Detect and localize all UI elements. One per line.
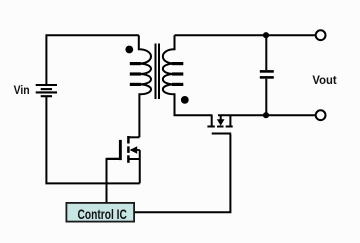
battery B1	[36, 85, 57, 96]
primary winding stubs	[130, 64, 141, 85]
wire: Q1 gate to Control IC	[107, 159, 120, 202]
MOSFET Q1 gate lead	[107, 158, 120, 160]
MOSFET Q1 body arrow	[131, 149, 140, 151]
MOSFET Q2 channel segments	[207, 126, 232, 128]
wire: secondary top to output	[175, 34, 316, 36]
wire: battery bottom, bottom rail to Q1 source corner	[46, 97, 139, 184]
svg-text:Vin: Vin	[14, 85, 30, 98]
secondary winding stubs	[172, 64, 183, 85]
MOSFET Q2 left (drain) vertical	[211, 115, 213, 126]
Control IC box	[66, 203, 134, 222]
svg-text:Control IC: Control IC	[78, 206, 127, 222]
MOSFET Q1 source	[128, 150, 139, 183]
wire: Q2 source to output bottom rail	[218, 114, 315, 116]
polarity dot secondary	[181, 96, 189, 104]
MOSFET Q2 right (source) vertical	[229, 115, 231, 126]
junction top	[263, 32, 269, 38]
MOSFET Q1 channel segments	[127, 136, 130, 163]
transformer core	[156, 44, 160, 100]
MOSFET Q2 gate bar	[212, 133, 232, 135]
MOSFET Q2 body arrow	[220, 115, 222, 121]
transformer T1 primary winding	[139, 35, 151, 137]
svg-text:Vout: Vout	[312, 74, 336, 87]
capacitor C1 leads	[265, 35, 267, 115]
junction bottom	[263, 112, 269, 118]
transformer T1 secondary winding	[163, 35, 212, 115]
MOSFET Q1 gate bar	[119, 140, 122, 160]
wire: battery top to transformer primary top	[46, 35, 138, 84]
wire: Control IC to Q2 gate	[135, 134, 230, 212]
capacitor C1 plates	[260, 71, 274, 77]
MOSFET Q1 drain lead	[128, 136, 139, 138]
terminal bottom	[316, 110, 326, 120]
terminal top	[316, 30, 326, 40]
polarity dot primary	[125, 46, 133, 54]
